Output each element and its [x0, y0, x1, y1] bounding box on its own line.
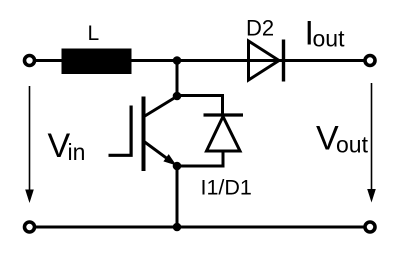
- svg-text:out: out: [336, 132, 369, 158]
- svg-text:I1/D1: I1/D1: [201, 176, 252, 200]
- node: bottom rail junction dot: [173, 223, 182, 232]
- svg-text:in: in: [68, 139, 86, 165]
- wire: node A down to collector node: [176, 61, 179, 97]
- wire: emitter node down to bottom rail: [176, 166, 179, 227]
- svg-text:L: L: [88, 22, 100, 45]
- wire: top rail from input terminal to output terminal: [34, 59, 364, 62]
- svg-text:out: out: [313, 26, 346, 52]
- transistor Q1 (IGBT) main bar: [142, 97, 146, 172]
- node A (junction dot top rail): [173, 56, 182, 65]
- terminal: top-right output: [365, 56, 375, 66]
- label Vout: [316, 120, 369, 158]
- arrow: Vin voltage arrow: [25, 86, 34, 203]
- transistor Q1 collector diagonal: [144, 96, 178, 117]
- label Vin: [48, 127, 86, 165]
- label Iout: [305, 15, 346, 53]
- node: collector junction dot: [173, 92, 182, 101]
- transistor Q1 emitter diagonal with arrow: [144, 142, 177, 166]
- transistor Q1 gate bar and gate lead: [109, 106, 132, 156]
- inductor L: [62, 49, 132, 75]
- terminal: top-left input: [25, 56, 35, 66]
- svg-text:D2: D2: [246, 16, 274, 41]
- terminal: bottom-left: [25, 222, 35, 232]
- wire: collector node to freewheel diode top: [177, 96, 223, 116]
- diode D1 cathode bar: [204, 113, 244, 116]
- diode D2 cathode bar: [282, 40, 285, 82]
- node: emitter junction dot: [173, 162, 182, 171]
- arrow: Vout voltage arrow: [367, 83, 376, 203]
- diode D1 triangle (anti-parallel, pointing up): [207, 117, 241, 152]
- wire: bottom rail: [36, 226, 371, 229]
- wire: freewheel diode bottom to emitter node: [177, 151, 223, 166]
- terminal: bottom-right: [365, 222, 375, 232]
- diode D2 triangle: [249, 41, 280, 80]
